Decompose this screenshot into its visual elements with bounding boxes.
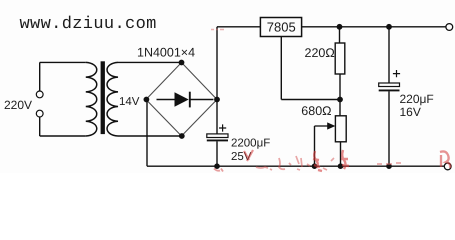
capacitor C1 bottom plate xyxy=(207,139,228,141)
bridge rectifier diamond xyxy=(146,63,217,137)
node output rail at C2 xyxy=(386,24,392,30)
diode D1 triangle xyxy=(175,92,189,106)
node bridge top vertex xyxy=(179,60,185,66)
wire bridge plus down to C1 xyxy=(216,100,218,135)
red watermark blob at wiper junction xyxy=(313,151,322,171)
node bridge bottom vertex xyxy=(179,133,185,139)
terminal output minus xyxy=(444,163,451,170)
red watermark end blob xyxy=(440,151,450,168)
wire C1 to bottom rail xyxy=(216,141,218,166)
svg-text:1N4001×4: 1N4001×4 xyxy=(137,46,195,60)
svg-text:680Ω: 680Ω xyxy=(301,104,331,118)
red watermark small dot xyxy=(307,164,310,166)
node wiper bottom junction xyxy=(312,163,318,169)
wire primary left upper xyxy=(39,62,41,91)
wire primary top xyxy=(40,61,86,63)
capacitor C2 top plate xyxy=(379,83,400,87)
wire R1 to junction xyxy=(339,74,341,100)
node C1 bottom junction xyxy=(214,163,220,169)
capacitor C2 bottom plate xyxy=(379,89,400,91)
node output rail at R1 xyxy=(337,24,343,30)
potentiometer RP1 wiper arrow line xyxy=(315,125,329,127)
wire secondary top to bridge xyxy=(118,61,182,63)
capacitor C1 top plate xyxy=(207,134,228,138)
red watermark small marks xyxy=(323,158,334,170)
wire C2 to bottom rail xyxy=(388,91,390,166)
svg-text:www.dziuu.com: www.dziuu.com xyxy=(20,15,157,34)
red watermark below C1 junction xyxy=(214,169,223,172)
svg-text:2200μF: 2200μF xyxy=(231,137,270,149)
red watermark curve glyph 2 xyxy=(279,158,291,169)
node divider junction xyxy=(337,97,343,103)
red watermark smear glyph 1 xyxy=(256,167,272,170)
node bridge right vertex xyxy=(214,97,220,103)
resistor R1 220ohm body xyxy=(335,43,345,74)
terminal plug upper 220V xyxy=(36,91,43,98)
wire bottom rail xyxy=(147,165,444,167)
wire top rail to 7805 input xyxy=(217,26,260,28)
wire 7805 ground to divider junction xyxy=(281,99,340,101)
potentiometer RP1 680ohm body xyxy=(335,116,346,142)
red watermark overlay on 25V xyxy=(244,150,253,161)
red watermark blob at pot junction xyxy=(341,150,349,169)
wire primary bottom xyxy=(40,135,86,137)
terminal plug lower 220V xyxy=(36,110,43,117)
capacitor C2 plus sign xyxy=(393,70,400,77)
node RP1 bottom junction xyxy=(338,163,344,169)
diode D1 cathode line xyxy=(190,99,214,101)
wire bridge plus up to top rail xyxy=(216,27,218,100)
transformer T1 primary winding xyxy=(86,62,97,136)
wire rail down to R1 xyxy=(339,27,341,43)
wire rail down to C2 xyxy=(388,27,390,83)
terminal output plus xyxy=(446,24,453,31)
wire 7805 output rail xyxy=(302,26,446,28)
potentiometer RP1 wiper arrowhead xyxy=(327,122,335,129)
svg-text:220Ω: 220Ω xyxy=(305,46,335,60)
diode D1 cathode bar xyxy=(189,92,191,108)
wire RP1 bottom to rail xyxy=(340,142,342,166)
wire secondary bottom to bridge xyxy=(118,135,182,137)
wire primary left lower xyxy=(39,117,41,136)
red watermark stroke near top corner xyxy=(211,29,224,31)
node C2 bottom junction xyxy=(386,163,392,169)
wire junction down to RP1 xyxy=(339,100,341,116)
diode D1 anode line xyxy=(157,99,175,101)
node bridge left vertex xyxy=(144,97,150,103)
svg-text:7805: 7805 xyxy=(267,19,296,34)
wire bridge minus down xyxy=(146,100,148,167)
red watermark tick glyph 3 xyxy=(296,156,302,170)
svg-text:220V: 220V xyxy=(4,98,32,112)
red watermark dashes xyxy=(377,163,401,164)
capacitor C1 plus sign xyxy=(219,124,226,131)
wire wiper down to bottom rail xyxy=(314,126,316,166)
svg-text:16V: 16V xyxy=(400,105,421,119)
svg-text:14V: 14V xyxy=(119,96,140,108)
svg-text:220μF: 220μF xyxy=(400,92,434,106)
transformer T1 core xyxy=(101,61,105,134)
wire 7805 ground pin down xyxy=(280,37,282,100)
regulator U1 7805 box xyxy=(260,18,301,37)
transformer T1 secondary winding xyxy=(107,62,118,136)
